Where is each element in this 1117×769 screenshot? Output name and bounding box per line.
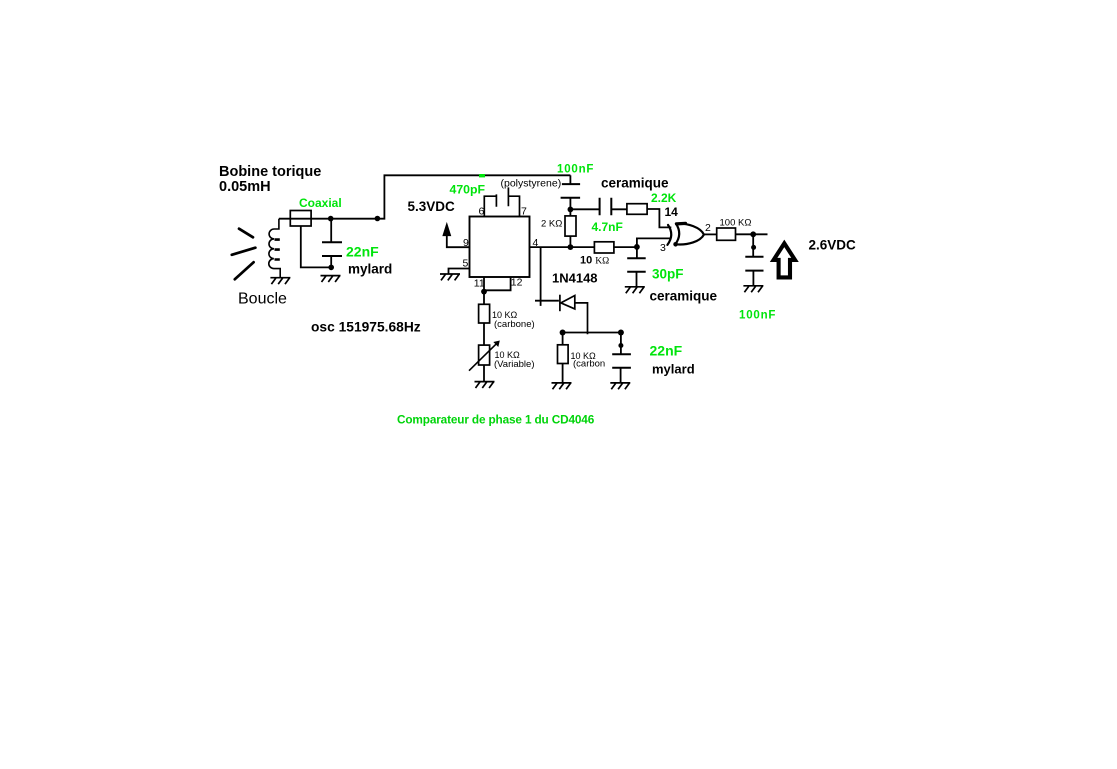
capacitor C2 470pF polystyrene (pins 6-7) xyxy=(484,187,519,216)
resistor R7 10K carbon xyxy=(558,333,569,383)
IC U1 CD4046 xyxy=(470,217,530,278)
XOR arc end blob xyxy=(673,242,678,247)
svg-text:Comparateur de phase 1 du CD40: Comparateur de phase 1 du CD4046 xyxy=(397,413,595,427)
svg-text:2.6VDC: 2.6VDC xyxy=(809,238,857,253)
label "Bobine torique 0.05mH" xyxy=(219,164,321,195)
capacitor C3 100nF ceramique (top) xyxy=(561,175,581,209)
junction dot pin 11 xyxy=(481,289,487,295)
ground (inductor) xyxy=(270,278,290,284)
resistor R4 2.2K xyxy=(627,204,647,215)
junction dot below output xyxy=(751,245,756,250)
svg-text:3: 3 xyxy=(660,242,666,254)
ground (30pF) xyxy=(625,287,645,293)
antenna radiation rays xyxy=(232,229,256,280)
junction node antenna/cap xyxy=(328,216,334,222)
wire XOR output to R6 xyxy=(704,233,717,235)
svg-text:100 KΩ: 100 KΩ xyxy=(720,218,752,229)
svg-text:ceramique: ceramique xyxy=(650,289,718,304)
svg-text:100nF: 100nF xyxy=(739,310,776,322)
resistor R6 100K xyxy=(717,228,736,240)
resistor R1 10K carbone xyxy=(479,292,490,346)
ground (22nF C7) xyxy=(610,383,630,389)
svg-text:22nF: 22nF xyxy=(346,244,379,260)
label "10 KΩ (carbon" xyxy=(571,351,606,370)
svg-text:(carbone): (carbone) xyxy=(494,319,535,330)
junction dot output xyxy=(750,231,756,237)
label "10 KΩ (carbone)" xyxy=(492,310,535,330)
potentiometer R2 10K variable xyxy=(469,341,500,382)
svg-text:osc 151975.68Hz: osc 151975.68Hz xyxy=(311,320,421,335)
svg-text:14: 14 xyxy=(665,205,679,219)
svg-text:mylard: mylard xyxy=(652,362,695,377)
wire: antenna node to top rail of CD4046 xyxy=(279,175,571,218)
junction dot bus left xyxy=(560,330,566,336)
ground (potentiometer) xyxy=(475,382,495,388)
svg-text:2.2K: 2.2K xyxy=(651,191,677,205)
svg-text:5.3VDC: 5.3VDC xyxy=(408,199,456,214)
wire pins 11-12 tie xyxy=(484,277,511,292)
svg-text:(Variable): (Variable) xyxy=(494,359,534,370)
svg-text:1N4148: 1N4148 xyxy=(552,271,598,286)
wire pin 4 down to diode xyxy=(535,247,559,306)
capacitor C5 30pF ceramique xyxy=(627,247,646,287)
svg-text:2 KΩ: 2 KΩ xyxy=(541,218,562,229)
wire pin 4 net xyxy=(530,246,637,248)
capacitor C4 4.7nF series xyxy=(570,198,627,216)
svg-text:470pF: 470pF xyxy=(450,183,486,197)
junction dot cap bottom xyxy=(328,265,334,271)
capacitor C1 22nF mylard xyxy=(322,219,342,268)
wire node 3 to XOR input xyxy=(637,238,672,247)
ground (100nF output) xyxy=(743,286,763,292)
svg-text:ceramique: ceramique xyxy=(601,176,669,191)
wire: coax shield down to cap bottom xyxy=(301,226,331,267)
svg-text:100nF: 100nF xyxy=(557,164,594,176)
resistor R3 2 K xyxy=(565,209,576,247)
capacitor C6 100nF output xyxy=(745,234,763,285)
wire diode bus xyxy=(563,332,621,334)
label "10 KΩ (Variable)" xyxy=(494,350,534,370)
svg-text:Bobine torique: Bobine torique xyxy=(219,164,321,180)
svg-text:30pF: 30pF xyxy=(652,267,684,282)
svg-text:Coaxial: Coaxial xyxy=(299,196,342,210)
XOR gate U2 (phase comparator I) xyxy=(667,223,704,245)
capacitor C7 22nF mylard xyxy=(612,333,631,383)
svg-text:10 KΩ: 10 KΩ xyxy=(580,255,609,267)
inductor L1 (Boucle loop antenna) xyxy=(269,219,280,278)
ground (10K carbon) xyxy=(552,383,572,389)
svg-text:12: 12 xyxy=(511,277,523,289)
svg-text:2: 2 xyxy=(705,222,711,234)
svg-text:(carbon: (carbon xyxy=(573,359,605,370)
diode D1 1N4148 xyxy=(560,295,588,335)
svg-text:22nF: 22nF xyxy=(650,343,683,359)
wire R6 to output stub xyxy=(736,233,768,235)
ground (22nF C1) xyxy=(321,276,341,282)
junction dot on rail xyxy=(375,216,381,222)
resistor R5 10K series (pin4 to node3) xyxy=(594,242,614,253)
junction dot 2K top xyxy=(568,207,574,213)
svg-text:7: 7 xyxy=(521,206,527,218)
ground (pin 5) xyxy=(440,274,460,280)
green mark remnant on rail xyxy=(479,174,485,177)
junction dot pin4 / 2K xyxy=(568,244,574,250)
wire 2.2K to XOR pin 14 xyxy=(647,209,671,227)
svg-text:mylard: mylard xyxy=(348,262,392,277)
hollow arrow 2.6VDC xyxy=(774,243,795,277)
svg-text:0.05mH: 0.05mH xyxy=(219,179,271,195)
coax box xyxy=(290,211,311,227)
power arrow 5.3VDC to pin 9 xyxy=(443,224,470,248)
wire pin 5 to ground xyxy=(449,269,470,275)
junction node 3 xyxy=(634,244,640,250)
svg-text:Boucle: Boucle xyxy=(238,291,287,308)
junction dot C7 top xyxy=(618,343,623,348)
junction dot bus right xyxy=(618,330,624,336)
svg-text:(polystyrene): (polystyrene) xyxy=(501,178,562,190)
svg-text:4.7nF: 4.7nF xyxy=(592,220,623,234)
